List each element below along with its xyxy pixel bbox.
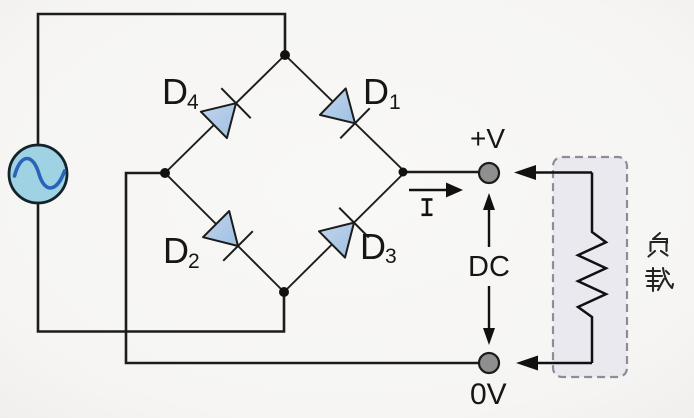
- DC up arrow: [483, 193, 495, 247]
- svg-text:1: 1: [389, 91, 401, 114]
- label D1: [363, 71, 401, 114]
- wire top loop: source top to bridge top node: [38, 14, 285, 146]
- current arrow I: [409, 183, 463, 198]
- AC source V1: [9, 145, 67, 203]
- wire bridge arm T-R (D1 branch): [285, 55, 405, 172]
- label I: [422, 199, 433, 215]
- wire right node to +V terminal: [405, 171, 478, 173]
- node B (bridge bottom junction): [279, 287, 289, 297]
- svg-text:D: D: [163, 230, 189, 271]
- diode D3: [319, 208, 369, 258]
- load enclosure (dashed box): [553, 157, 627, 377]
- label 负载 (load): [646, 233, 673, 291]
- wire left node to 0V rail: [126, 173, 478, 363]
- diode D2: [203, 211, 253, 261]
- svg-text:DC: DC: [468, 251, 510, 283]
- label D2: [163, 230, 200, 273]
- wire bridge arm L-T (D4 branch): [165, 55, 285, 173]
- wire bridge arm B-R (D3 branch): [284, 172, 405, 292]
- label 0V: [470, 378, 507, 411]
- svg-text:+V: +V: [470, 123, 505, 154]
- label D3: [360, 226, 397, 268]
- label +V: [470, 123, 505, 154]
- load resistor RL (zigzag): [578, 173, 606, 364]
- svg-text:D: D: [162, 71, 188, 112]
- svg-text:D: D: [363, 71, 389, 112]
- svg-text:0V: 0V: [470, 378, 507, 411]
- svg-text:D: D: [360, 226, 386, 267]
- svg-text:4: 4: [187, 91, 199, 114]
- svg-text:2: 2: [188, 250, 200, 273]
- node T (bridge top junction): [280, 50, 290, 60]
- load wire to +V (arrow): [514, 165, 592, 180]
- wire source bottom to bridge bottom node: [38, 202, 284, 332]
- diode D1: [320, 88, 370, 138]
- DC down arrow: [483, 286, 495, 345]
- terminal 0V: [479, 353, 499, 373]
- load wire to 0V (arrow): [516, 356, 592, 371]
- node L (bridge left junction): [160, 168, 170, 178]
- terminal +V: [479, 163, 499, 183]
- node R (bridge right junction): [399, 168, 408, 177]
- svg-text:3: 3: [385, 245, 397, 268]
- label DC: [468, 251, 510, 283]
- diode D4: [201, 88, 251, 138]
- label D4: [162, 71, 199, 114]
- wire bridge arm L-B (D2 branch): [165, 173, 284, 292]
